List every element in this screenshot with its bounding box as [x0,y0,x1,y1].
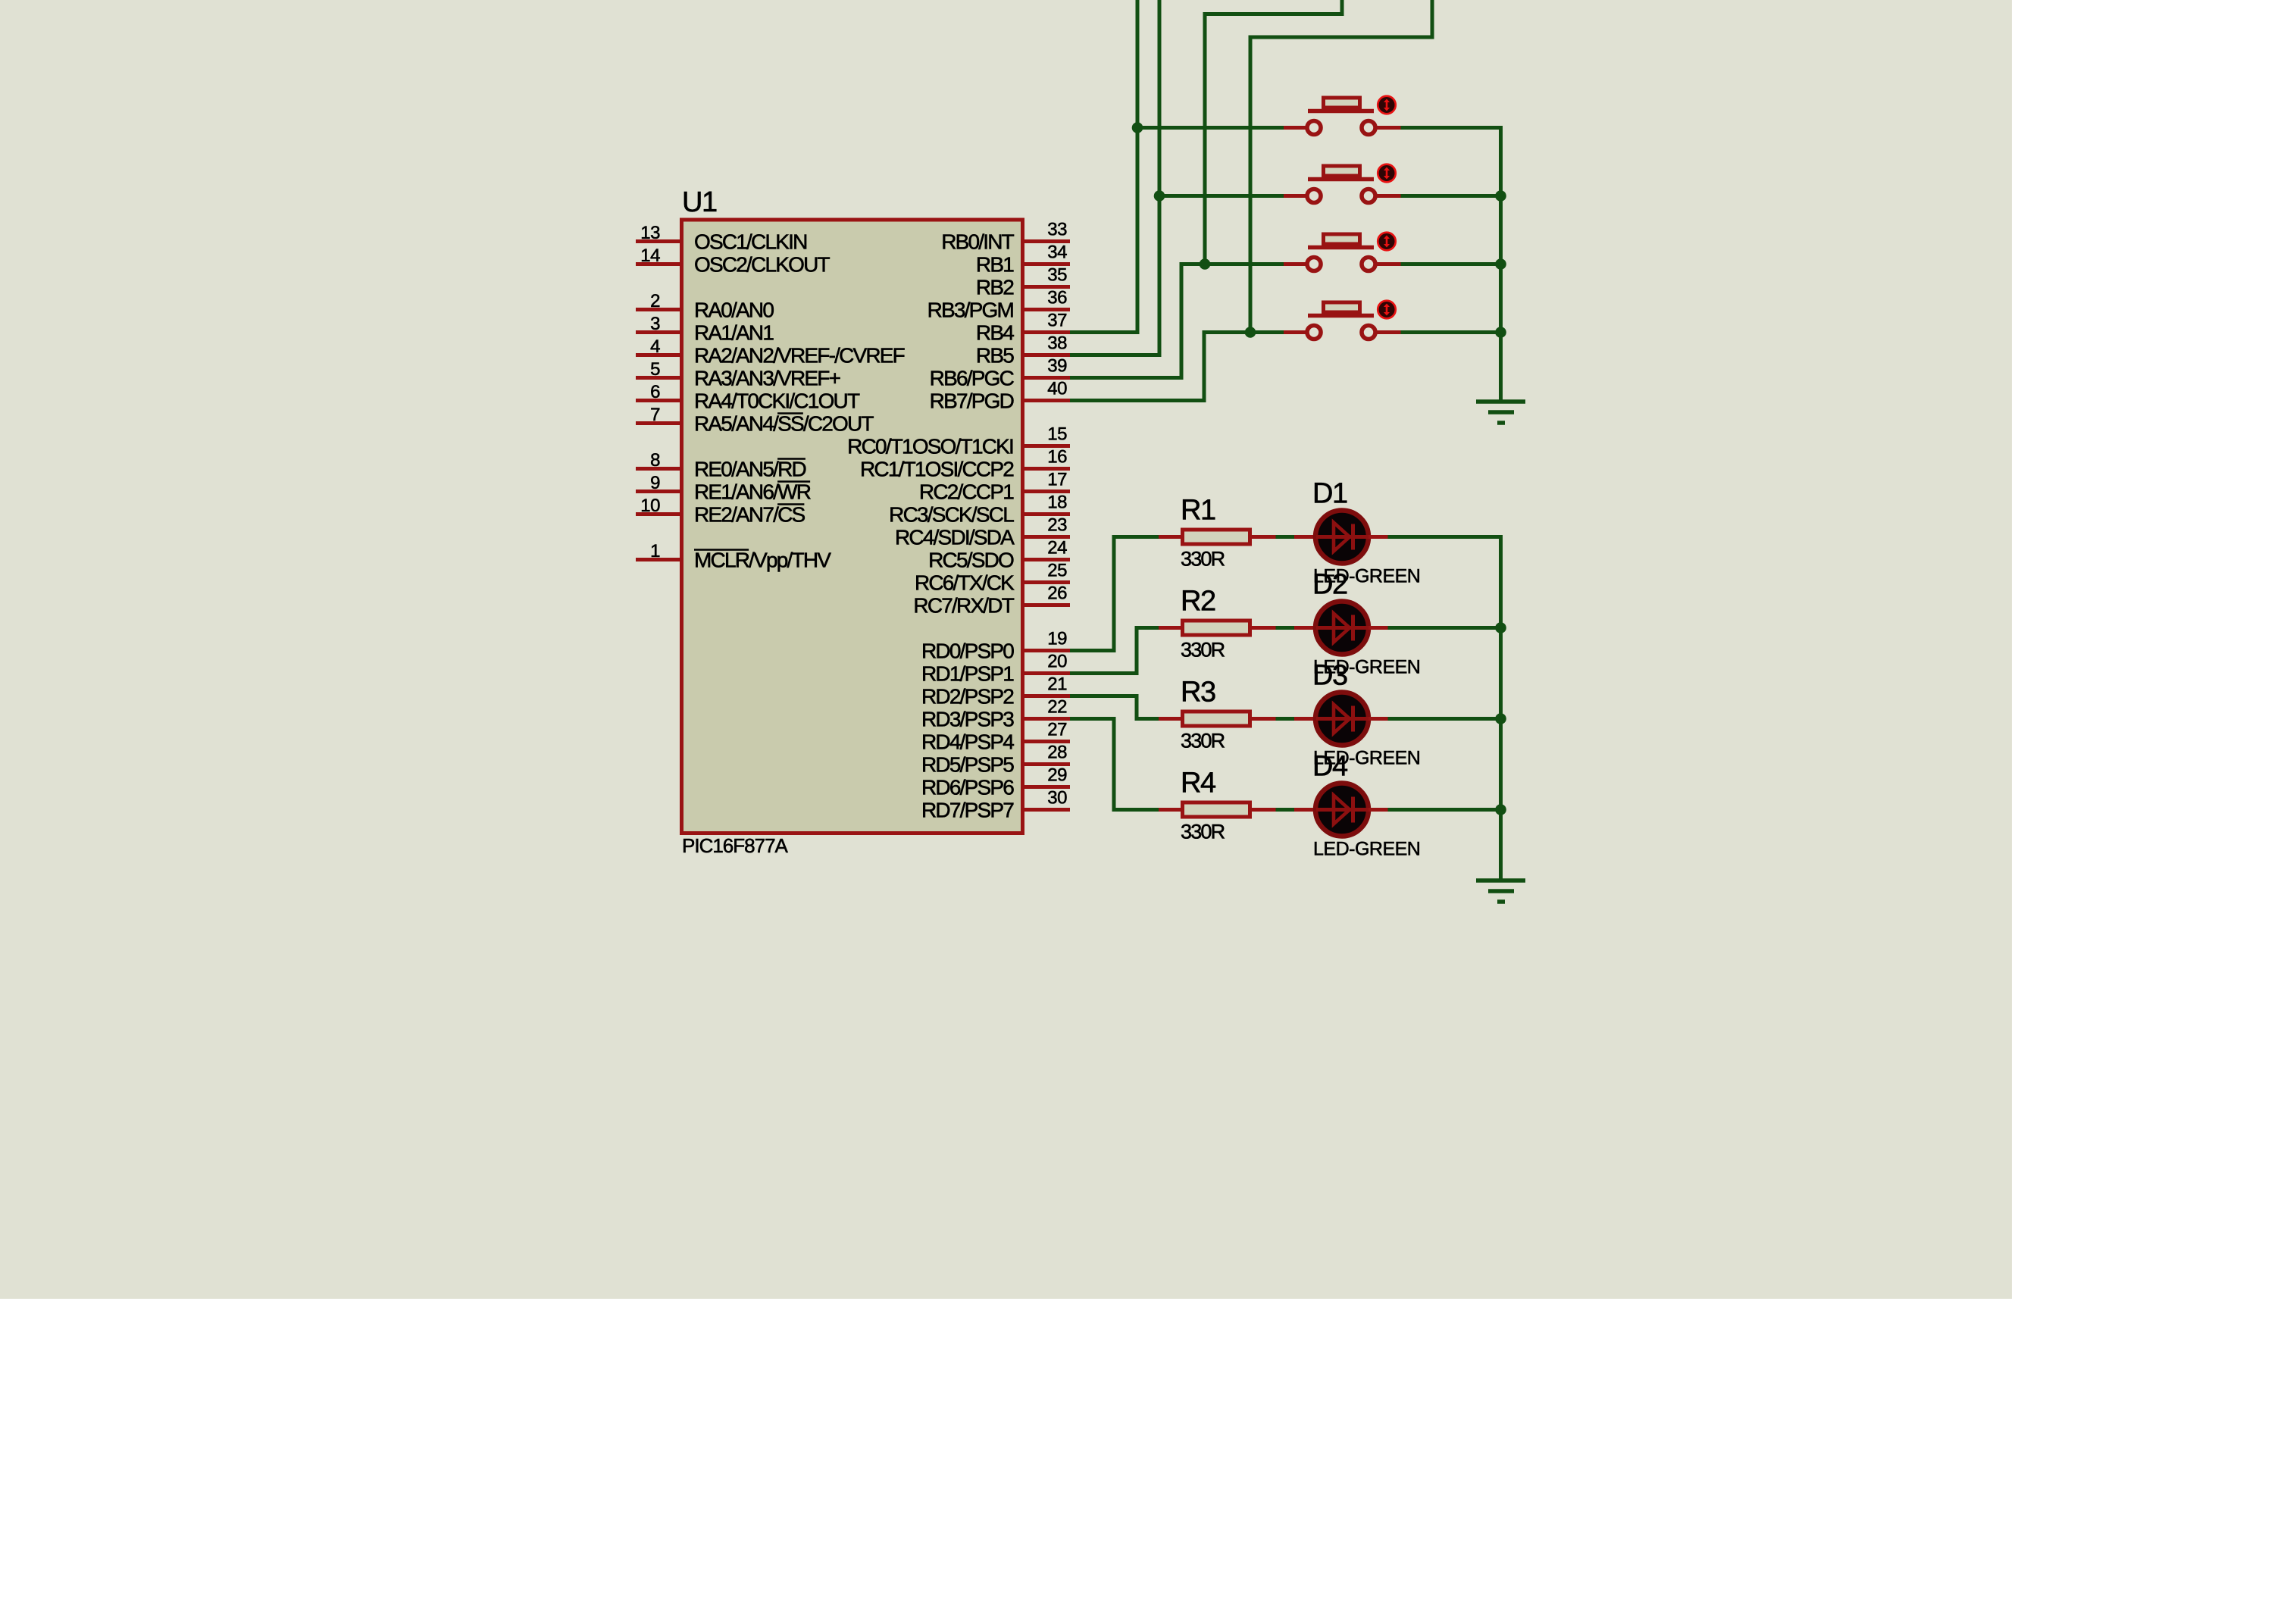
svg-text:RC7/RX/DT: RC7/RX/DT [913,594,1014,618]
pin 1 (MCLR/Vpp/THV) stub [636,558,680,561]
junction bus button3 [1495,258,1506,270]
svg-text:3: 3 [650,314,660,334]
svg-text:33: 33 [1047,220,1067,240]
svg-text:RD2/PSP2: RD2/PSP2 [921,685,1014,708]
wire button1 right to bus [1401,126,1503,130]
pin 7 (RA5/AN4/SS/C2OUT) stub [636,421,680,425]
wire button3 top horizontal [1203,12,1343,16]
resistor R1 (330R) [1159,530,1276,544]
wire button3 top vertical [1203,14,1207,264]
svg-text:7: 7 [650,405,660,425]
pin 6 (RA4/T0CKI/C1OUT) stub [636,399,680,402]
push button SW3 [1284,233,1401,271]
pin 25 (RC6/TX/CK) stub [1024,580,1070,584]
pin 26 (RC7/RX/DT) stub [1024,603,1070,607]
svg-text:29: 29 [1047,765,1067,786]
wire R2 to D2 [1276,626,1295,630]
junction bus button4 [1495,327,1506,338]
wire RD0 riser up to R1 row [1112,535,1116,652]
svg-text:15: 15 [1047,424,1067,445]
wire button ground bus [1499,126,1503,400]
svg-text:D3: D3 [1312,660,1347,692]
svg-text:RB3/PGM: RB3/PGM [927,299,1014,322]
svg-text:R4: R4 [1181,768,1216,799]
pin 22 (RD3/PSP3) stub [1024,717,1070,721]
wire R4 row feed [1114,808,1159,812]
junction bus D4 [1495,804,1506,815]
wire D4 to bus [1388,808,1501,812]
svg-text:R1: R1 [1181,495,1215,527]
svg-text:RD0/PSP0: RD0/PSP0 [921,640,1014,663]
svg-text:RD5/PSP5: RD5/PSP5 [921,753,1014,777]
wire button4 top exit [1431,0,1434,39]
svg-text:RB1: RB1 [976,253,1014,277]
ground (buttons) [1476,402,1525,423]
svg-text:RB0/INT: RB0/INT [941,230,1014,254]
svg-text:RA1/AN1: RA1/AN1 [694,321,774,345]
svg-text:RB2: RB2 [976,276,1014,299]
pin 24 (RC5/SDO) stub [1024,558,1070,561]
svg-text:RC5/SDO: RC5/SDO [928,549,1014,572]
wire button3 right to bus [1401,262,1501,266]
svg-text:OSC1/CLKIN: OSC1/CLKIN [694,230,807,254]
svg-text:27: 27 [1047,720,1067,740]
pin 9 (RE1/AN6/WR) stub [636,490,680,493]
svg-text:D4: D4 [1312,751,1348,783]
wire button4 top vertical [1249,37,1253,333]
svg-text:OSC2/CLKOUT: OSC2/CLKOUT [694,253,830,277]
svg-text:D1: D1 [1312,478,1347,510]
pin 30 (RD7/PSP7) stub [1024,808,1070,812]
pin 33 (RB0/INT) stub [1024,239,1070,243]
svg-text:26: 26 [1047,583,1067,604]
svg-text:MCLR/Vpp/THV: MCLR/Vpp/THV [694,549,831,572]
svg-text:35: 35 [1047,265,1067,286]
svg-text:RB4: RB4 [976,321,1014,345]
svg-text:38: 38 [1047,333,1067,354]
wire R4 to D4 [1276,808,1295,812]
pin 8 (RE0/AN5/RD) stub [636,467,680,471]
pin 16 (RC1/T1OSI/CCP2) stub [1024,467,1070,471]
svg-text:4: 4 [650,336,660,357]
resistor R3 (330R) [1159,712,1276,726]
junction bus button2 [1495,190,1506,202]
svg-text:RB6/PGC: RB6/PGC [930,367,1015,390]
wire RD1 riser up to R2 row [1135,626,1139,675]
svg-text:6: 6 [650,382,660,402]
pin 10 (RE2/AN7/CS) stub [636,512,680,516]
svg-text:330R: 330R [1181,639,1225,662]
svg-text:2: 2 [650,291,660,311]
wire R2 row feed [1137,626,1159,630]
svg-text:14: 14 [640,246,660,266]
svg-text:36: 36 [1047,288,1067,308]
junction pin38 net / button2 [1154,190,1165,202]
svg-text:RE1/AN6/WR: RE1/AN6/WR [694,480,811,504]
svg-text:16: 16 [1047,447,1067,468]
pin 18 (RC3/SCK/SCL) stub [1024,512,1070,516]
svg-text:17: 17 [1047,470,1067,490]
pin 40 (RB7/PGD) stub [1024,399,1070,402]
wire RB5 riser up to top edge [1158,0,1162,357]
svg-text:5: 5 [650,359,660,380]
pin 28 (RD5/PSP5) stub [1024,762,1070,766]
pin 35 (RB2) stub [1024,285,1070,289]
wire RD2 pin21 to riser [1070,694,1137,698]
pin 20 (RD1/PSP1) stub [1024,671,1070,675]
svg-text:9: 9 [650,473,660,493]
wire RD1 pin20 to riser [1070,671,1137,675]
pin 27 (RD4/PSP4) stub [1024,740,1070,743]
svg-text:RA2/AN2/VREF-/CVREF: RA2/AN2/VREF-/CVREF [694,344,905,368]
LED D2 (LED-GREEN) [1294,602,1388,655]
svg-text:1: 1 [650,541,660,561]
pin 15 (RC0/T1OSO/T1CKI) stub [1024,444,1070,448]
svg-text:21: 21 [1047,674,1067,695]
wire R1 row feed [1114,535,1159,539]
wire button2 right to bus [1401,194,1501,198]
LED D1 (LED-GREEN) [1294,511,1388,564]
pin 4 (RA2/AN2/VREF-/CVREF) stub [636,353,680,357]
svg-text:24: 24 [1047,538,1067,558]
push button SW1 [1284,96,1401,135]
push button SW2 [1284,164,1401,203]
svg-text:RC1/T1OSI/CCP2: RC1/T1OSI/CCP2 [860,458,1014,481]
pin 37 (RB4) stub [1024,330,1070,334]
junction bus D2 [1495,622,1506,633]
svg-text:330R: 330R [1181,821,1225,843]
svg-text:18: 18 [1047,493,1067,513]
pin 36 (RB3/PGM) stub [1024,308,1070,311]
svg-text:23: 23 [1047,515,1067,536]
svg-text:RC6/TX/CK: RC6/TX/CK [915,571,1015,595]
pin 34 (RB1) stub [1024,262,1070,266]
svg-text:28: 28 [1047,743,1067,763]
svg-text:R2: R2 [1181,586,1215,618]
wire LED ground bus [1499,535,1503,879]
svg-text:19: 19 [1047,629,1067,649]
wire button3 top exit [1340,0,1344,16]
svg-text:RE2/AN7/CS: RE2/AN7/CS [694,503,805,527]
microcontroller U1 body [682,220,1023,834]
pin 2 (RA0/AN0) stub [636,308,680,311]
svg-text:RA4/T0CKI/C1OUT: RA4/T0CKI/C1OUT [694,389,860,413]
svg-text:R3: R3 [1181,677,1215,708]
wire R1 to D1 [1276,535,1295,539]
svg-text:RE0/AN5/RD: RE0/AN5/RD [694,458,806,481]
resistor R4 (330R) [1159,802,1276,817]
svg-text:RB5: RB5 [976,344,1014,368]
pin 3 (RA1/AN1) stub [636,330,680,334]
svg-text:RA0/AN0: RA0/AN0 [694,299,774,322]
svg-text:330R: 330R [1181,548,1225,571]
pin 29 (RD6/PSP6) stub [1024,785,1070,789]
wire RB5 pin38 to riser [1070,353,1159,357]
pin 5 (RA3/AN3/VREF+) stub [636,376,680,380]
svg-text:RA5/AN4/SS/C2OUT: RA5/AN4/SS/C2OUT [694,412,874,436]
pin 23 (RC4/SDI/SDA) stub [1024,535,1070,539]
svg-text:22: 22 [1047,697,1067,718]
wire RB7 pin40 to riser [1070,399,1204,402]
wire button4 top horizontal [1249,36,1433,39]
svg-text:RD3/PSP3: RD3/PSP3 [921,708,1014,731]
LED D3 (LED-GREEN) [1294,693,1388,746]
junction bus D3 [1495,713,1506,724]
pin 38 (RB5) stub [1024,353,1070,357]
svg-text:RD7/PSP7: RD7/PSP7 [921,799,1014,822]
svg-text:RC2/CCP1: RC2/CCP1 [919,480,1014,504]
svg-text:30: 30 [1047,788,1067,809]
wire button3 row horizontal [1180,262,1284,266]
svg-text:40: 40 [1047,379,1067,399]
svg-text:8: 8 [650,450,660,471]
wire D2 to bus [1388,626,1501,630]
wire RD2 riser down to R3 row [1135,694,1139,721]
wire RB4 riser up to top edge [1136,0,1140,334]
svg-text:20: 20 [1047,652,1067,672]
svg-text:39: 39 [1047,356,1067,377]
svg-text:10: 10 [640,496,660,516]
svg-text:RC3/SCK/SCL: RC3/SCK/SCL [889,503,1014,527]
pin 21 (RD2/PSP2) stub [1024,694,1070,698]
svg-text:RD6/PSP6: RD6/PSP6 [921,776,1014,799]
svg-text:RA3/AN3/VREF+: RA3/AN3/VREF+ [694,367,840,390]
svg-text:RB7/PGD: RB7/PGD [930,389,1014,413]
wire button2 row horizontal [1159,194,1284,198]
wire RD3 riser down to R4 row [1112,717,1116,812]
svg-text:RD4/PSP4: RD4/PSP4 [921,730,1014,754]
svg-text:LED-GREEN: LED-GREEN [1313,839,1420,860]
wire RB6 pin39 to riser [1070,376,1181,380]
svg-text:25: 25 [1047,561,1067,581]
pin 17 (RC2/CCP1) stub [1024,490,1070,493]
wire D1 to bus [1388,535,1503,539]
wire button1 row horizontal [1137,126,1284,130]
wire RB7 riser up to button4 row [1203,333,1206,403]
wire RD3 pin22 to riser [1070,717,1114,721]
svg-text:34: 34 [1047,242,1067,263]
wire button4 right to bus [1401,330,1501,334]
junction pin37 net / button1 [1132,122,1143,133]
svg-text:U1: U1 [682,186,717,218]
svg-text:D2: D2 [1312,569,1347,601]
svg-text:37: 37 [1047,311,1067,331]
svg-text:13: 13 [640,223,660,243]
wire RB6 riser up to button3 row [1180,264,1184,380]
pin 19 (RD0/PSP0) stub [1024,649,1070,652]
svg-text:RC0/T1OSO/T1CKI: RC0/T1OSO/T1CKI [847,435,1013,458]
wire D3 to bus [1388,717,1501,721]
svg-text:PIC16F877A: PIC16F877A [682,834,789,857]
svg-text:330R: 330R [1181,730,1225,752]
schematic canvas background [0,0,2012,1299]
pin 39 (RB6/PGC) stub [1024,376,1070,380]
resistor R2 (330R) [1159,621,1276,635]
wire RB4 pin37 to riser [1070,330,1137,334]
wire R3 to D3 [1276,717,1295,721]
wire R3 row feed [1137,717,1159,721]
svg-text:RD1/PSP1: RD1/PSP1 [921,662,1014,686]
push button SW4 [1284,301,1401,339]
junction button4 row [1245,327,1256,338]
wire RD0 pin19 to riser [1070,649,1114,652]
wire button4 row horizontal [1203,330,1284,334]
LED D4 (LED-GREEN) [1294,784,1388,837]
pin 13 (OSC1/CLKIN) stub [636,239,680,243]
pin 14 (OSC2/CLKOUT) stub [636,262,680,266]
svg-text:RC4/SDI/SDA: RC4/SDI/SDA [895,526,1015,549]
junction button3 row [1200,258,1211,270]
ground (LEDs) [1476,881,1525,902]
